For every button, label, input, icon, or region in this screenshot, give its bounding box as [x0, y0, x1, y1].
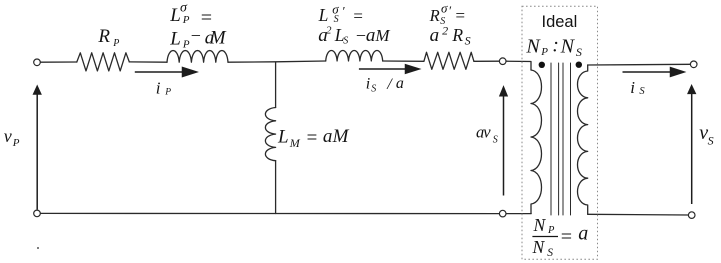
svg-text:S: S: [371, 84, 376, 95]
svg-text:i: i: [630, 78, 635, 97]
svg-text:a: a: [396, 75, 404, 92]
svg-text:S: S: [465, 34, 471, 48]
svg-text:S: S: [334, 14, 339, 25]
svg-text:a: a: [366, 25, 376, 46]
svg-text:i: i: [156, 78, 161, 97]
svg-text:S: S: [343, 36, 348, 47]
svg-text:v: v: [4, 126, 12, 146]
svg-text:P: P: [182, 14, 190, 26]
svg-text:σ: σ: [441, 0, 448, 15]
svg-text:L: L: [318, 5, 329, 25]
svg-text:N: N: [525, 36, 541, 58]
svg-text:=: =: [560, 226, 574, 248]
svg-text:=: =: [352, 7, 363, 26]
svg-text:L: L: [277, 126, 289, 147]
svg-text:P: P: [540, 46, 548, 58]
svg-text:R: R: [97, 26, 110, 47]
svg-text:P: P: [164, 88, 171, 98]
svg-text:=: =: [305, 127, 318, 148]
svg-text:S: S: [576, 45, 582, 59]
svg-text:Ideal: Ideal: [542, 13, 578, 31]
svg-text:a: a: [430, 25, 440, 46]
svg-text:P: P: [547, 225, 555, 236]
svg-text:−: −: [190, 25, 202, 45]
svg-text:L: L: [169, 29, 181, 50]
svg-text:M: M: [209, 28, 227, 49]
svg-text:2: 2: [442, 23, 448, 37]
svg-text:a: a: [323, 126, 333, 147]
svg-text:a: a: [578, 223, 588, 245]
svg-text:S: S: [493, 135, 498, 146]
svg-text:′: ′: [342, 4, 345, 19]
svg-text:2: 2: [326, 24, 332, 36]
svg-text:N: N: [533, 215, 547, 235]
svg-text:S: S: [547, 247, 553, 259]
svg-text:′: ′: [448, 3, 451, 18]
svg-text:R: R: [429, 6, 440, 25]
svg-text:P: P: [12, 137, 20, 149]
svg-text:=: =: [454, 6, 465, 25]
svg-text::: :: [552, 35, 559, 57]
svg-text:M: M: [289, 136, 301, 150]
svg-text:i: i: [366, 76, 370, 93]
svg-text:M: M: [374, 26, 390, 45]
svg-text:M: M: [332, 126, 350, 147]
svg-text:v: v: [483, 122, 491, 141]
svg-text:N: N: [532, 237, 546, 257]
svg-text:N: N: [560, 36, 576, 58]
svg-text:/: /: [386, 76, 393, 93]
svg-text:R: R: [451, 25, 463, 45]
svg-text:S: S: [639, 86, 645, 97]
svg-text:P: P: [112, 38, 119, 49]
svg-text:S: S: [708, 133, 714, 147]
